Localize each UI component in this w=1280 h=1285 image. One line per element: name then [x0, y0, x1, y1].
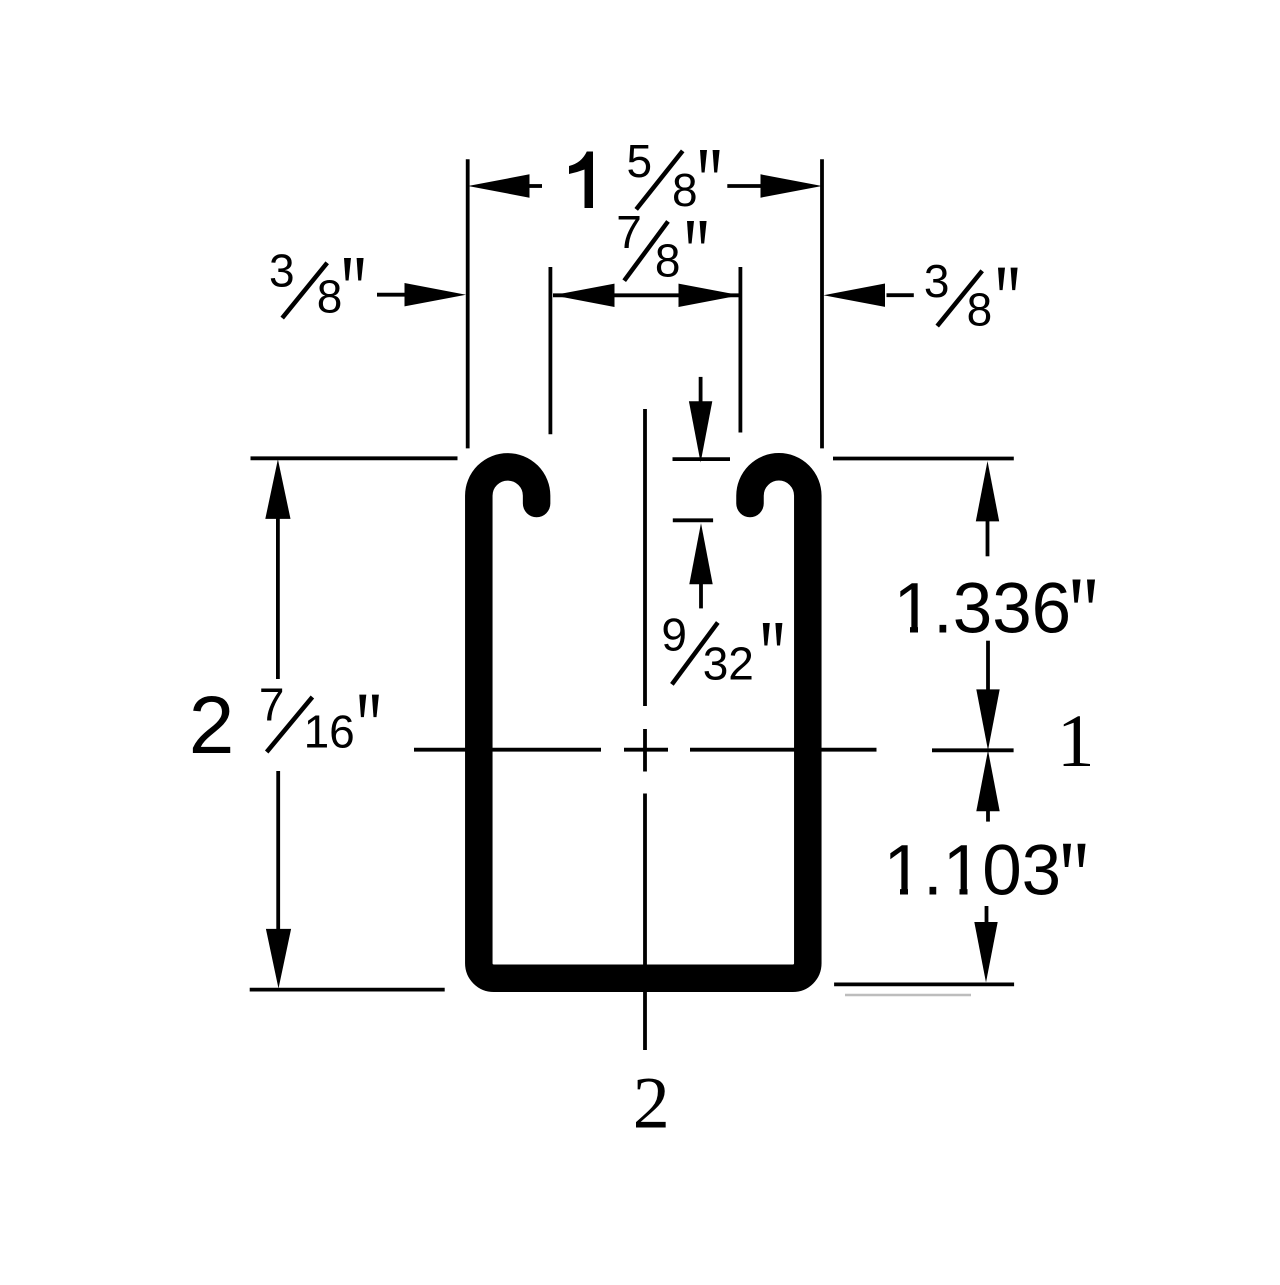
dimension line 1 5/8 left arrow	[530, 184, 543, 188]
quote after 1.103	[1063, 844, 1086, 867]
svg-text:8: 8	[655, 234, 681, 286]
svg-text:5: 5	[627, 135, 653, 187]
horizontal centerline (dash segments)	[414, 748, 877, 752]
dim 1.103 bottom down-arrow	[985, 906, 989, 924]
tick bottom (9/32 dim)	[673, 518, 713, 522]
channel profile (strut cross-section)	[479, 467, 808, 978]
svg-text:2: 2	[633, 1062, 670, 1144]
svg-text:7: 7	[259, 678, 285, 730]
extension line right (1 5/8 width)	[820, 159, 824, 448]
quote after 7/8	[687, 221, 707, 244]
center tick right (axis 1 level)	[932, 748, 1014, 752]
dimension line 7/8	[553, 293, 740, 297]
quote after right 3/8	[998, 268, 1018, 291]
serif-foot masks for digits 1 of 1.103	[886, 888, 900, 898]
svg-text:8: 8	[967, 284, 993, 336]
svg-text:3: 3	[924, 255, 950, 307]
leader arrow right 3/8	[887, 293, 914, 297]
dim 1.336 bottom down-arrow	[986, 641, 990, 692]
quote after 1.336	[1073, 580, 1096, 603]
extension line bottom-right (1.103 dim)	[834, 983, 1014, 987]
svg-text:2: 2	[189, 680, 235, 771]
extension line bottom-left (height dim)	[250, 988, 445, 992]
svg-text:3: 3	[269, 245, 295, 297]
svg-text:8: 8	[672, 164, 698, 216]
dim 1.103 top up-arrow	[986, 809, 990, 822]
leader arrow left 3/8	[377, 293, 406, 297]
svg-text:8: 8	[317, 271, 343, 323]
extension line left (1 5/8 width)	[466, 159, 470, 448]
quote after 9/32	[763, 623, 783, 646]
quote after 2 7/16	[359, 695, 379, 718]
quote after left 3/8	[344, 258, 364, 281]
extension line top-left (height dim)	[251, 456, 458, 460]
extension line top-right (1.336 dim)	[833, 457, 1014, 461]
height dim 2 7/16 top up-arrow	[276, 517, 280, 679]
dimension line 1 5/8 right arrow	[727, 184, 760, 188]
text 1 (of 1 5/8")	[569, 152, 593, 209]
extension line right (7/8 opening)	[739, 267, 743, 433]
svg-text:9: 9	[661, 609, 687, 661]
height dim 2 7/16 bottom down-arrow	[276, 771, 280, 929]
quote after 1 5/8	[700, 150, 720, 173]
serif-foot masks for digit 1 of 1.336	[896, 626, 910, 636]
extension line left (7/8 opening)	[549, 267, 553, 434]
fraction slash left 3/8	[282, 263, 327, 318]
svg-text:16: 16	[304, 705, 355, 757]
dim 1.336 top up-arrow	[986, 519, 990, 556]
tick top (9/32 dim)	[673, 457, 731, 461]
svg-text:1.103: 1.103	[884, 831, 1062, 910]
fraction slash 1 5/8	[636, 151, 683, 210]
fraction slash 2 7/16	[267, 697, 313, 752]
svg-text:7: 7	[616, 206, 642, 258]
9/32 lower up-arrow	[699, 583, 703, 608]
fraction slash right 3/8	[937, 271, 982, 326]
vertical centerline (dash segments)	[643, 409, 647, 1050]
fraction slash 9/32	[672, 623, 718, 685]
faint artifact line right of channel bottom	[845, 994, 971, 996]
svg-text:1.336: 1.336	[894, 569, 1072, 648]
svg-text:32: 32	[703, 638, 754, 690]
fraction slash 7/8	[624, 221, 668, 280]
svg-text:1: 1	[1057, 700, 1095, 783]
9/32 upper down-arrow	[699, 377, 703, 403]
